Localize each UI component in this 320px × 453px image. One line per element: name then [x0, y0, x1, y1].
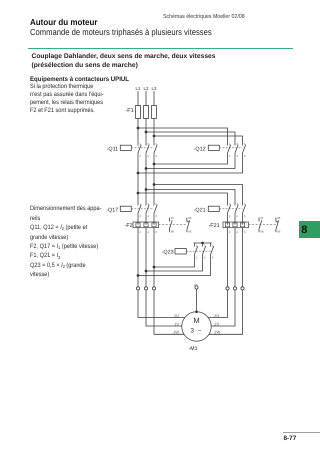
- svg-text:-Q21: -Q21: [194, 207, 206, 213]
- wire Q23 pole1 to T3: [154, 255, 195, 268]
- thermal relay F2 pin numbers: [139, 230, 157, 234]
- contactor Q17 actuator box: [120, 206, 131, 211]
- svg-text:98: 98: [171, 230, 175, 234]
- contactor Q23 contact 5-6: [211, 246, 214, 254]
- svg-text:6: 6: [212, 256, 214, 260]
- svg-text:1V: 1V: [174, 321, 179, 326]
- svg-text:6: 6: [155, 154, 157, 158]
- contactor Q11 actuator box: [120, 145, 131, 150]
- wire T1 fuse to Q11 pole 1: [137, 119, 139, 146]
- svg-text:4: 4: [236, 230, 238, 234]
- svg-text:2: 2: [229, 214, 231, 218]
- svg-text:96: 96: [277, 230, 281, 234]
- contactor Q21 linkage: [219, 208, 242, 210]
- svg-text:-Q11: -Q11: [107, 146, 119, 152]
- terminal circle T1: [136, 287, 139, 290]
- contactor Q11 contact 3-4: [146, 145, 149, 153]
- node junction motor PE: [195, 310, 198, 313]
- wire T1 Q17 to F2: [137, 213, 139, 222]
- thermal relay F2 aux contact 95-96: [187, 218, 190, 233]
- contactor Q21 pin numbers: [229, 202, 246, 218]
- wire T3 branch to Q21 pole 3: [154, 185, 243, 206]
- node junction T2 branch to Q21: [145, 188, 148, 191]
- wire F21 pole1 to motor 2U: [208, 228, 227, 318]
- svg-text:4: 4: [147, 230, 149, 234]
- svg-text:4: 4: [147, 214, 149, 218]
- thermal relay F21 aux contact 97-98: [259, 218, 262, 233]
- wire T2 fuse to Q11 pole 2: [145, 119, 147, 146]
- contactor Q17 contact 1-2: [138, 205, 141, 213]
- fuse F1 pole 3: [152, 106, 157, 119]
- terminal circle 2V: [233, 287, 236, 290]
- terminal circle PE: [195, 286, 198, 289]
- svg-text:97: 97: [260, 216, 264, 220]
- node junction T1 Q12-return: [137, 172, 140, 175]
- node junction T3 branch to Q21: [153, 183, 156, 186]
- terminal circle T2: [144, 287, 147, 290]
- contactor Q21 label: [194, 207, 206, 213]
- node junction T2 Q23-return: [145, 270, 148, 273]
- svg-text:6: 6: [244, 214, 246, 218]
- contactor Q23 actuator box: [175, 249, 186, 255]
- contactor Q12 contact 3-4: [235, 145, 238, 153]
- motor M1 text 3~: [190, 327, 201, 334]
- contactor Q23 linkage: [186, 250, 210, 252]
- svg-text:4: 4: [204, 256, 206, 260]
- node L1 label: [136, 86, 141, 91]
- wire L3 drop to fuse: [153, 91, 155, 106]
- wire Q21 pole2 to F21: [234, 213, 236, 222]
- thermal relay F2 label: [125, 223, 133, 229]
- thermal relay F2 element 1: [136, 223, 140, 227]
- contactor Q12 actuator box: [208, 145, 219, 150]
- svg-text:-F2: -F2: [125, 223, 133, 229]
- motor M1 text M: [193, 316, 199, 325]
- wire F21 pole2 to motor 2V: [211, 228, 235, 326]
- subtitle: [30, 27, 212, 37]
- svg-text:2: 2: [139, 230, 141, 234]
- wire T2 Q17 to F2: [145, 213, 147, 222]
- svg-text:2: 2: [196, 256, 198, 260]
- contactor Q11 label: [107, 146, 119, 152]
- contactor Q11 linkage: [131, 147, 154, 149]
- contactor Q21 contact 5-6: [243, 205, 246, 213]
- wire L2 branch to Q12 pole 2: [146, 132, 235, 146]
- svg-text:6: 6: [244, 154, 246, 158]
- wire T2 Q11 to Q17: [145, 153, 147, 206]
- svg-text:6: 6: [244, 230, 246, 234]
- contactor Q23 contact 1-2: [195, 246, 198, 254]
- motor terminal label 2U: [214, 313, 219, 318]
- svg-text:2U: 2U: [214, 313, 219, 318]
- header running title: [163, 14, 245, 20]
- svg-text:4: 4: [236, 214, 238, 218]
- thermal relay F2 trip linkage: [159, 224, 187, 226]
- wire T1 F2 to motor 1U: [138, 228, 185, 318]
- teal rule: [28, 48, 293, 49]
- node junction T3 Q23-return: [153, 266, 156, 269]
- svg-text:95: 95: [277, 216, 281, 220]
- svg-text:6: 6: [155, 214, 157, 218]
- motor terminal label 1U: [174, 313, 179, 318]
- wire T1 Q11 to Q17: [137, 153, 139, 206]
- contactor Q12 contact 5-6: [243, 145, 246, 153]
- node junction L1 branch: [137, 127, 140, 130]
- contactor Q12 label: [194, 147, 206, 153]
- svg-text:98: 98: [260, 230, 264, 234]
- terminal circle 2U: [226, 287, 229, 290]
- motor terminal label 1W: [173, 330, 179, 335]
- wire L1 drop to fuse: [137, 91, 139, 106]
- fuse F1 pole 1: [136, 106, 141, 119]
- svg-text:~: ~: [198, 327, 202, 334]
- wire Q23 pole2 to T2: [146, 255, 203, 272]
- wire Q21 pole1 to F21: [227, 213, 229, 222]
- svg-text:3: 3: [190, 328, 194, 335]
- svg-text:6: 6: [155, 230, 157, 234]
- node junction L3 branch: [153, 135, 156, 138]
- contactor Q21 contact 1-2: [228, 205, 231, 213]
- svg-text:-Q17: -Q17: [106, 207, 118, 213]
- svg-text:1W: 1W: [173, 330, 179, 335]
- contactor Q17 pin numbers: [139, 202, 157, 218]
- svg-text:2: 2: [229, 154, 231, 158]
- svg-text:-M1: -M1: [189, 346, 198, 352]
- thermal relay F21 element 3: [240, 223, 244, 227]
- wire L1 branch to Q12 pole 1: [138, 128, 228, 146]
- fuse F1 pole 2: [144, 106, 149, 119]
- wire F21 pole3 to motor 2W: [209, 228, 243, 335]
- wire T3 fuse to Q11 pole 3: [153, 119, 155, 146]
- contactor Q23 pin numbers: [196, 244, 214, 260]
- wire T2 branch to Q21 pole 2: [146, 190, 235, 206]
- contactor Q23 contact 3-4: [203, 246, 206, 254]
- wire T2 F2 to motor 1V: [146, 228, 182, 326]
- svg-text:2: 2: [139, 214, 141, 218]
- thermal relay F21 element 1: [225, 223, 229, 227]
- svg-text:4: 4: [236, 154, 238, 158]
- wire Q23 pole1 top lead: [194, 243, 196, 247]
- wire Q23 pole2 top lead: [202, 243, 204, 247]
- contactor Q17 contact 5-6: [154, 205, 157, 213]
- wire Q23 pole3 to T1: [138, 255, 211, 276]
- node junction T1 branch to Q21: [137, 192, 140, 195]
- contactor Q17 linkage: [131, 208, 154, 210]
- terminal circle 2W: [241, 287, 244, 290]
- wire T1 branch to Q21 pole 1: [138, 193, 228, 206]
- left text block 1: [30, 83, 128, 116]
- wire Q23 pole3 top lead: [210, 243, 212, 247]
- title bold: [30, 17, 97, 27]
- thermal relay F21 body: [223, 222, 249, 228]
- motor terminal label 2V: [214, 321, 219, 326]
- svg-text:L3: L3: [152, 86, 157, 91]
- svg-text:L1: L1: [136, 86, 141, 91]
- svg-text:96: 96: [188, 230, 192, 234]
- green chapter tab: [299, 221, 320, 238]
- wire PE to motor: [196, 289, 198, 312]
- section heading: [30, 76, 129, 83]
- contactor Q23 label: [162, 250, 174, 256]
- node junction T3 Q12-return: [153, 163, 156, 166]
- node junction T2 Q12-return: [145, 167, 148, 170]
- contactor Q21 actuator box: [208, 206, 219, 211]
- contactor Q12 contact 1-2: [228, 145, 231, 153]
- contactor Q12 linkage: [219, 147, 242, 149]
- terminal circle T3: [152, 287, 155, 290]
- wire T3 F2 to motor 1W: [154, 228, 184, 335]
- thermal relay F2 element 3: [152, 223, 156, 227]
- thermal relay F2 body: [133, 222, 159, 228]
- svg-text:4: 4: [147, 154, 149, 158]
- svg-text:2V: 2V: [214, 321, 219, 326]
- svg-text:-Q23: -Q23: [162, 250, 174, 256]
- thermal relay F21 pin numbers: [229, 230, 246, 234]
- svg-text:95: 95: [188, 216, 192, 220]
- box title line 1: [32, 53, 216, 60]
- contactor Q11 contact 5-6: [154, 145, 157, 153]
- node junction T1 Q23-return: [137, 274, 140, 277]
- wire L2 drop to fuse: [145, 91, 147, 106]
- thermal relay F2 element 2: [144, 223, 148, 227]
- svg-text:-Q12: -Q12: [194, 147, 206, 153]
- footer rule: [283, 431, 320, 434]
- motor terminal label 2W: [214, 330, 220, 335]
- contactor Q12 pin numbers: [229, 142, 246, 158]
- svg-text:2W: 2W: [214, 330, 220, 335]
- thermal relay F21 label: [209, 223, 220, 229]
- svg-text:-F1: -F1: [126, 108, 134, 114]
- node junction L2 branch: [145, 131, 148, 134]
- node PE label: [194, 283, 198, 287]
- thermal relay F21 aux contact 95-96: [276, 218, 279, 233]
- svg-text:-F21: -F21: [209, 223, 220, 229]
- wire Q12 pole2 return to T2: [146, 153, 235, 169]
- contactor Q17 label: [106, 207, 118, 213]
- wire L3 branch to Q12 pole 3: [154, 136, 243, 146]
- svg-text:2: 2: [139, 154, 141, 158]
- svg-text:1U: 1U: [174, 313, 179, 318]
- thermal relay F2 aux contact 97-98: [169, 218, 172, 233]
- contactor Q11 pin numbers: [139, 142, 157, 158]
- wire Q21 pole3 to F21: [242, 213, 244, 222]
- motor terminal label 1V: [174, 321, 179, 326]
- svg-text:M: M: [193, 316, 199, 325]
- contactor Q17 contact 3-4: [146, 205, 149, 213]
- thermal relay F21 trip linkage: [249, 224, 276, 226]
- wire Q12 pole3 return to T1: [138, 153, 243, 173]
- fuse F1 label: [126, 108, 134, 114]
- left text block 2: [30, 204, 128, 279]
- node L2 label: [144, 86, 149, 91]
- contactor Q21 contact 3-4: [235, 205, 238, 213]
- node junction Q23 bridge: [201, 242, 204, 245]
- motor M1 label: [189, 346, 198, 352]
- svg-text:97: 97: [171, 216, 175, 220]
- motor M1 body: [182, 312, 211, 341]
- node L3 label: [152, 86, 157, 91]
- wire T3 Q17 to F2: [153, 213, 155, 222]
- svg-text:L2: L2: [144, 86, 149, 91]
- contactor Q11 contact 1-2: [138, 145, 141, 153]
- thermal relay F21 element 2: [233, 223, 237, 227]
- box title line 2: [32, 62, 138, 69]
- footer page number: [284, 435, 297, 442]
- wire T3 Q11 to Q17: [153, 153, 155, 206]
- wire Q23 star bridge: [194, 242, 212, 244]
- svg-text:2: 2: [229, 230, 231, 234]
- wire Q12 pole1 return to T3: [154, 153, 228, 164]
